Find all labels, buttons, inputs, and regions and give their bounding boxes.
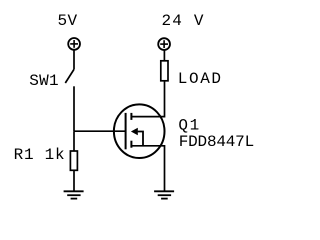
svg-text:R1 1k: R1 1k [14, 146, 65, 164]
wire 24V terminal to LOAD [163, 50, 165, 61]
wire switch bottom contact to gate node [73, 86, 75, 131]
wire gate node down to R1 [73, 131, 75, 151]
ground (right) [154, 191, 174, 198]
resistor R1 [70, 151, 77, 170]
Q1 gate plate [125, 113, 127, 149]
power terminal +5V [68, 38, 80, 50]
Q1 body arrow [131, 128, 138, 136]
wire 5V terminal to switch top [73, 50, 75, 70]
svg-text:24 V: 24 V [162, 12, 204, 30]
switch SW1 blade [65, 70, 74, 84]
resistor LOAD [161, 61, 168, 81]
wire gate node to MOSFET gate [74, 130, 126, 132]
power terminal +24V [158, 38, 170, 50]
MOSFET Q1 body circle [114, 104, 165, 158]
svg-text:Q1: Q1 [178, 116, 199, 134]
svg-text:LOAD: LOAD [178, 70, 221, 88]
Q1 drain plate [130, 113, 132, 120]
wire LOAD to drain corner [131, 81, 164, 117]
ground (left) [64, 191, 84, 198]
svg-text:FDD8447L: FDD8447L [179, 133, 255, 151]
wire source to ground [131, 146, 164, 192]
wire R1 to ground [73, 170, 75, 191]
svg-text:5V: 5V [58, 12, 78, 30]
Q1 source plate [130, 141, 132, 148]
svg-text:SW1: SW1 [29, 72, 58, 90]
